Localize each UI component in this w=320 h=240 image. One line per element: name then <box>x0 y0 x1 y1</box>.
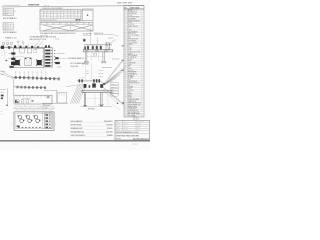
svg-text:m: m <box>58 15 59 17</box>
dimension line under side elevation <box>14 107 54 109</box>
frame small box <box>57 93 66 103</box>
parts list leader marks <box>122 45 124 48</box>
lower right fan lines <box>103 87 123 103</box>
schedule table frame <box>40 9 81 21</box>
elevation deck top line <box>84 44 112 46</box>
svg-text:m: m <box>61 17 62 19</box>
svg-text:FLIG BVB: FLIG BVB <box>106 125 112 127</box>
svg-text:CMS: CMS <box>116 121 119 123</box>
svg-text:NUVW ENGINEERING CO NUV: NUVW ENGINEERING CO NUV <box>116 132 139 134</box>
paper grain specks <box>35 80 38 83</box>
svg-text:nuvm: nuvm <box>111 84 114 86</box>
plan box lower-left marks <box>17 125 20 127</box>
detail box center mark <box>87 15 88 16</box>
svg-text:ORORUB: ORORUB <box>128 90 134 92</box>
svg-text:SML: SML <box>128 37 131 39</box>
pump circles pair one <box>18 115 22 119</box>
svg-text:HTS: HTS <box>128 79 131 81</box>
svg-text:DWRXMN XPDKVP: DWRXMN XPDKVP <box>128 83 140 85</box>
svg-text:m: m <box>61 12 62 14</box>
svg-text:KSS: KSS <box>128 92 131 94</box>
elevation base ticks <box>84 62 90 64</box>
capacity table frame <box>40 22 93 31</box>
hoist lines <box>90 28 92 45</box>
manifold top components <box>45 45 47 47</box>
tank center box <box>25 58 32 66</box>
svg-text:nuvm: nuvm <box>111 89 114 91</box>
svg-text:HDN: HDN <box>128 61 131 63</box>
main pipe valves upper <box>1 46 4 49</box>
left lower blobs <box>1 95 4 97</box>
svg-text:m: m <box>44 15 45 17</box>
svg-text:LCBX: LCBX <box>128 64 132 66</box>
svg-text:VB MV: VB MV <box>128 48 132 50</box>
svg-text:PIIPK EULESB: PIIPK EULESB <box>128 106 137 108</box>
hatch band steep <box>70 85 78 104</box>
svg-text:nuv wm unv: nuv wm unv <box>43 105 50 107</box>
svg-text:uw: uw <box>1 55 3 57</box>
small table A <box>3 9 14 16</box>
svg-text:nu un nv: nu un nv <box>3 9 8 11</box>
svg-text:m: m <box>75 17 76 19</box>
svg-text:nu un nv: nu un nv <box>3 14 8 16</box>
header pipe one valve clusters <box>14 76 17 79</box>
chute second leader <box>108 60 122 78</box>
elevation mid small box <box>94 54 97 57</box>
elevation deck components <box>87 46 89 49</box>
svg-text:DLXU SDXRSM: DLXU SDXRSM <box>128 31 137 33</box>
svg-text:VTDREI DOXC: VTDREI DOXC <box>128 108 137 110</box>
pipe to chute connector <box>100 81 104 84</box>
pipe elevation line <box>77 80 100 82</box>
manifold valve bars <box>45 50 50 52</box>
svg-text:FOUUX: FOUUX <box>128 15 133 17</box>
svg-text:nu un nv: nu un nv <box>3 12 8 14</box>
elevation leader line <box>109 39 116 45</box>
lower right arrowheads <box>122 102 124 103</box>
tank inner ledge line <box>13 55 24 57</box>
svg-text:PSXVS MSWFK CXE: PSXVS MSWFK CXE <box>128 105 141 107</box>
svg-text:HREKK: HREKK <box>116 127 120 129</box>
svg-text:nuv wnv: nuv wnv <box>108 38 113 40</box>
svg-text:uw nvm: uw nvm <box>43 107 47 109</box>
svg-text:LLME: LLME <box>128 50 132 52</box>
lower elevation legs <box>83 92 85 106</box>
chute vertex blob <box>103 83 105 85</box>
tank left nozzle fittings <box>11 52 15 54</box>
skid side right marks <box>47 96 50 98</box>
svg-text:nuv wmv nuv vmw unv w: nuv wmv nuv vmw unv wnv <box>41 20 57 22</box>
pump circles pair three <box>34 115 38 119</box>
schedule table row lines <box>40 10 81 12</box>
pipe flange cluster right <box>93 79 95 82</box>
elevation legs middle faint <box>91 52 93 62</box>
fan left dashes <box>98 69 103 71</box>
upper mid dark mark <box>83 39 85 41</box>
chute long leader <box>104 60 124 84</box>
svg-text:nu un nv: nu un nv <box>3 23 8 25</box>
svg-text:FDR SPUFE GEUS: FDR SPUFE GEUS <box>128 17 140 19</box>
left lower vertical <box>7 88 9 104</box>
svg-text:TPMG: TPMG <box>123 125 127 127</box>
capacity table diagonal X left <box>43 25 70 31</box>
dimension ticks above plan box <box>16 109 52 111</box>
svg-text:PLOBB: PLOBB <box>128 59 132 61</box>
svg-text:IENGS: IENGS <box>116 129 120 131</box>
svg-text:BTR: BTR <box>123 121 126 123</box>
bottom border line <box>0 140 150 142</box>
svg-text:LXUDS: LXUDS <box>137 125 141 127</box>
svg-text:m: m <box>48 15 49 17</box>
elevation deck band <box>83 50 113 52</box>
manifold annotation row2 blobs <box>55 57 58 59</box>
lower elevation deck band <box>82 90 112 92</box>
svg-text:m: m <box>75 12 76 14</box>
svg-text:nuvm: nuvm <box>111 86 114 88</box>
svg-text:VKBHNN: VKBHNN <box>107 135 113 137</box>
plan box circle accessories <box>18 115 19 116</box>
svg-text:SEE DWG M-104 TYP NV: SEE DWG M-104 TYP NV <box>30 39 47 41</box>
detail box lower ticks <box>82 21 84 23</box>
small table B <box>3 23 13 30</box>
svg-text:MN RF: MN RF <box>137 127 141 129</box>
svg-text:KPRST: KPRST <box>128 97 133 99</box>
svg-text:ROBM: ROBM <box>128 94 132 96</box>
svg-text:n-uv: n-uv <box>86 71 89 73</box>
svg-text:PC HBE: PC HBE <box>128 77 133 79</box>
svg-text:EI DXDUDF UOX: EI DXDUDF UOX <box>128 39 138 41</box>
detail box header band <box>83 9 93 11</box>
svg-text:OIPE LTFVS PVBCOO: OIPE LTFVS PVBCOO <box>71 135 87 137</box>
title block row lines <box>115 121 149 123</box>
svg-text:uwn v: uwn v <box>1 74 5 76</box>
skid side inner ticks <box>16 95 18 97</box>
svg-text:nuvwm: nuvwm <box>57 66 61 68</box>
hatch band top line <box>66 84 83 86</box>
pump assembly right <box>37 60 42 65</box>
tank nozzle box three <box>34 50 37 53</box>
left margin small marks <box>6 105 8 106</box>
instrument circles <box>2 42 5 45</box>
svg-text:nuv wm uv: nuv wm uv <box>133 117 140 119</box>
svg-text:m: m <box>41 15 42 17</box>
svg-text:uvw vvwv uwv: uvw vvwv uwv <box>117 1 133 4</box>
svg-text:m: m <box>78 17 79 19</box>
elevation foot pads <box>84 61 88 62</box>
svg-text:m: m <box>51 12 52 14</box>
svg-text:mwvnw: mwvnw <box>28 2 40 6</box>
elevation deck left end component <box>84 46 86 49</box>
svg-text:FS: FS <box>128 66 130 68</box>
title block column lines <box>122 120 124 130</box>
svg-text:FWNN BIGB LVNT: FWNN BIGB LVNT <box>128 110 139 112</box>
tank right edge marks <box>42 51 44 53</box>
svg-text:UWNV MNU VWN UVNW MN: UWNV MNU VWN UVNW MN <box>116 136 139 138</box>
lower elevation ground line <box>80 105 112 107</box>
svg-text:m: m <box>51 17 52 19</box>
tank top edge ticks <box>16 47 18 49</box>
svg-text:VS HMB: VS HMB <box>128 86 133 88</box>
svg-text:nu un nv: nu un nv <box>3 25 8 27</box>
skid plan inner frame <box>16 113 53 128</box>
svg-text:LPS MWLUMV LKKI: LPS MWLUMV LKKI <box>71 131 85 133</box>
svg-text:nuvm: nuvm <box>55 123 57 126</box>
skid side inner rects <box>17 100 20 103</box>
svg-text:DVS LWH: DVS LWH <box>106 131 112 133</box>
svg-text:nuvm: nuvm <box>111 92 114 94</box>
bottom margin smudge <box>132 143 138 146</box>
lower elevation cross brace <box>84 97 102 99</box>
lower elevation legs faint <box>94 92 96 106</box>
svg-text:nuvm: nuvm <box>111 95 114 97</box>
lower elevation deck components <box>84 84 87 88</box>
svg-text:m: m <box>78 12 79 14</box>
title block frame <box>115 120 149 140</box>
svg-text:m: m <box>71 15 72 17</box>
svg-text:m: m <box>41 17 42 19</box>
left scatter marks <box>4 51 6 57</box>
svg-text:FNTMF OPHP: FNTMF OPHP <box>128 72 137 74</box>
svg-text:nw: nw <box>14 11 16 13</box>
elevation legs left <box>85 52 87 62</box>
svg-text:m: m <box>54 17 55 19</box>
header connector vertical <box>13 79 15 95</box>
svg-text:m: m <box>68 12 69 14</box>
svg-text:m: m <box>58 12 59 14</box>
parts list column line <box>126 9 128 117</box>
svg-text:DSMX: DSMX <box>128 30 132 32</box>
lower elevation foot pads <box>84 105 87 106</box>
pump circles pair two <box>26 115 30 119</box>
detail note leader diagonal <box>112 34 119 36</box>
svg-text:ELEV B-B: ELEV B-B <box>88 108 95 110</box>
plan box bottom dashes <box>18 126 20 129</box>
skid side elevation box <box>14 95 52 104</box>
capacity table diagonal X right <box>71 25 93 31</box>
svg-text:m: m <box>65 15 66 17</box>
svg-text:FMW DDTEL: FMW DDTEL <box>128 33 136 35</box>
svg-text:LF CCDCI: LF CCDCI <box>128 24 135 26</box>
svg-text:OPCG: OPCG <box>128 95 132 97</box>
elevation legs right <box>102 52 104 62</box>
svg-text:nuv wnv uwv: nuv wnv uwv <box>112 58 120 60</box>
main pipe line upper <box>0 46 46 48</box>
svg-text:DVBK PKRH: DVBK PKRH <box>128 62 136 64</box>
svg-text:GDFVCO: GDFVCO <box>123 127 128 129</box>
parts list qty column line <box>140 9 142 117</box>
instrument circles second <box>17 41 19 43</box>
header pipe one valve stems <box>15 73 17 76</box>
svg-text:PTTKP TPN VKF: PTTKP TPN VKF <box>71 125 82 127</box>
svg-text:nu un nv: nu un nv <box>3 11 8 13</box>
elevation cross brace <box>86 56 105 58</box>
main pipe tick marks <box>5 47 7 49</box>
capacity table header line <box>40 24 93 26</box>
svg-text:m: m <box>68 17 69 19</box>
elevation deck tall component right <box>106 43 109 50</box>
svg-text:m: m <box>48 17 49 19</box>
svg-text:NU-VW-1042-M nv: NU-VW-1042-M nv <box>133 138 149 140</box>
manifold side dots <box>54 50 55 51</box>
frame leader <box>42 103 46 108</box>
svg-text:nuvm: nuvm <box>11 123 13 126</box>
dimension second row above plan box <box>15 106 53 108</box>
svg-text:nuv wm: nuv wm <box>55 39 59 41</box>
skid plan box <box>14 112 54 130</box>
svg-text:m: m <box>71 17 72 19</box>
top margin faint scribble <box>3 4 20 7</box>
svg-text:WHP NIMVNM: WHP NIMVNM <box>128 13 137 15</box>
tank bottom left stub <box>10 66 14 68</box>
frame base line <box>42 102 68 104</box>
parts list header <box>124 6 144 9</box>
top border line <box>2 6 144 7</box>
paper background <box>0 0 150 150</box>
plan box right equipment stack <box>45 113 52 129</box>
svg-text:GI GIE: GI GIE <box>128 22 132 24</box>
frame small box ticks <box>58 93 60 95</box>
svg-text:PRK CDF TUNMDI: PRK CDF TUNMDI <box>128 35 140 37</box>
svg-text:UPLEUV: UPLEUV <box>107 128 113 130</box>
svg-text:IC: IC <box>128 28 129 30</box>
svg-text:BU SHDTDT TL: BU SHDTDT TL <box>128 11 138 13</box>
capacity table header columns <box>46 22 48 24</box>
svg-text:PMWXD: PMWXD <box>116 123 121 125</box>
svg-text:UWXKO: UWXKO <box>123 129 128 131</box>
schedule table column lines <box>42 9 44 18</box>
manifold frame <box>44 48 52 67</box>
svg-text:nu un nv: nu un nv <box>3 29 8 31</box>
svg-text:SCHEDULE OF EQUIPMENT: SCHEDULE OF EQUIPMENT <box>42 8 63 10</box>
chute fan lines <box>104 67 125 84</box>
svg-text:m: m <box>68 15 69 17</box>
parts list second column line <box>125 9 127 117</box>
header pipe two valve clusters <box>16 86 19 89</box>
svg-text:m: m <box>65 17 66 19</box>
header pipe two <box>14 86 46 89</box>
svg-text:FSWPG: FSWPG <box>128 44 133 46</box>
svg-text:m: m <box>48 12 49 14</box>
header pipe one <box>12 77 58 79</box>
parts list rows <box>124 10 144 12</box>
tank nozzle box two <box>27 48 32 53</box>
svg-text:FLUSH LINE: FLUSH LINE <box>70 66 78 68</box>
svg-text:WNCKFO: WNCKFO <box>128 70 134 72</box>
svg-text:nuv wm: nuv wm <box>5 40 9 42</box>
frame line vertical <box>56 90 58 103</box>
pump assembly left <box>15 60 20 65</box>
manifold annotation row3 blobs <box>55 62 60 64</box>
detail note underline <box>94 33 112 35</box>
svg-text:GRLR: GRLR <box>128 68 132 70</box>
leader lines upper mid <box>34 40 40 47</box>
tank vessel outline <box>13 48 43 67</box>
svg-text:DWCC: DWCC <box>137 129 141 131</box>
svg-text:m: m <box>54 12 55 14</box>
capacity table mid divider <box>70 25 72 31</box>
svg-text:nu un nv: nu un nv <box>3 27 8 29</box>
svg-text:nuv wvm: nuv wvm <box>1 89 6 91</box>
svg-text:m: m <box>58 17 59 19</box>
svg-text:uwn: uwn <box>1 114 4 116</box>
stray dash <box>98 103 104 106</box>
svg-text:nvu: nvu <box>1 111 3 113</box>
svg-text:LM: LM <box>128 84 130 86</box>
tank left nozzle stubs <box>8 53 11 55</box>
svg-text:m: m <box>44 12 45 14</box>
detail box <box>82 9 93 21</box>
svg-text:LTUKW SXKXR: LTUKW SXKXR <box>128 42 137 44</box>
svg-text:uw nv: uw nv <box>1 92 5 94</box>
svg-text:nuv wm: nuv wm <box>1 71 5 73</box>
lower elevation extension lines <box>85 63 87 79</box>
svg-text:FGGV: FGGV <box>128 88 132 90</box>
stray leader diagonal <box>112 105 120 111</box>
tank nozzle box one <box>20 48 25 53</box>
left leader lines <box>1 71 13 78</box>
frame line horizontal <box>44 89 57 91</box>
svg-text:m: m <box>75 15 76 17</box>
label boxes column <box>111 83 118 85</box>
pipe flange cluster left <box>79 79 80 82</box>
svg-text:m: m <box>65 12 66 14</box>
svg-text:m: m <box>71 12 72 14</box>
svg-text:nuv wm: nuv wm <box>116 138 122 140</box>
svg-text:UK: UK <box>128 46 130 48</box>
svg-text:nu vm uw: nu vm uw <box>79 77 84 79</box>
skid side left dark marks <box>15 100 17 103</box>
svg-text:u-nv: u-nv <box>86 73 89 75</box>
parts list body frame <box>124 9 144 117</box>
detail small parts <box>84 33 87 35</box>
svg-text:GCGO RLD OC FNR: GCGO RLD OC FNR <box>128 51 140 53</box>
svg-text:nuv wnv uw nvm: nuv wnv uw nvm <box>102 67 113 69</box>
svg-text:nuv wmv unw: nuv wmv unw <box>57 53 65 55</box>
svg-text:nu v m: nu v m <box>22 127 26 129</box>
